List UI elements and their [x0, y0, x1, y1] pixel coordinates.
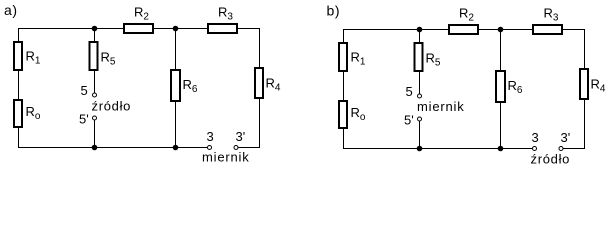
wire: circuit b bottom horizontal (right of node 3') [563, 148, 585, 149]
wire: circuit b R6 branch bottom [500, 103, 501, 148]
wire: circuit b left vertical [343, 29, 344, 149]
resistor R3 (a) [208, 24, 237, 33]
svg-text:miernik: miernik [417, 99, 465, 114]
wire: circuit b R5 branch top [419, 29, 420, 42]
node 5' terminal circle (b) [418, 117, 422, 121]
resistor R3 (b) [533, 25, 562, 34]
svg-text:5: 5 [81, 83, 88, 98]
svg-text:b): b) [327, 3, 341, 19]
node 3 terminal circle (a) [208, 146, 212, 150]
node 3' terminal circle (a) [234, 146, 238, 150]
node 3' terminal circle (b) [559, 147, 563, 151]
wire: circuit b R5 branch to node 5 [419, 72, 420, 94]
junction dot a: bottom R5 branch [92, 145, 98, 151]
node 5 terminal circle (a) [93, 93, 97, 97]
junction dot b: bottom R5 branch [417, 146, 423, 152]
resistor R2 (a) [124, 24, 153, 33]
wire: circuit b R6 branch top [500, 29, 501, 70]
wire: circuit a bottom horizontal (left of node 3) [18, 147, 207, 148]
svg-text:5': 5' [79, 112, 89, 127]
resistor R1 (a) [14, 42, 22, 70]
junction dot b: top R5 branch [417, 27, 423, 33]
junction dot a: top R5 branch [92, 26, 98, 32]
wire: circuit b node 5' to bottom [419, 121, 420, 148]
wire: circuit a R6 branch top [175, 28, 176, 69]
svg-text:3': 3' [236, 129, 246, 144]
resistor R4 (a) [255, 68, 263, 98]
svg-text:3: 3 [207, 129, 214, 144]
wire: circuit a right vertical above R4 [259, 28, 260, 67]
node 3 terminal circle (b) [533, 147, 537, 151]
wire: circuit a R5 branch to node 5 [94, 71, 95, 93]
node 5 terminal circle (b) [418, 94, 422, 98]
svg-text:3: 3 [532, 130, 539, 145]
junction dot b: top R6 branch [498, 27, 504, 33]
wire: circuit a right vertical below R4 [259, 99, 260, 148]
resistor R6 (b) [496, 71, 505, 102]
wire: circuit a node 5' to bottom [94, 120, 95, 147]
resistor Ro (b) [339, 101, 347, 128]
wire: circuit b right vertical below R4 [584, 100, 585, 149]
svg-text:5: 5 [406, 84, 413, 99]
resistor R6 (a) [171, 70, 180, 101]
wire: circuit a R5 branch top [94, 28, 95, 41]
resistor R1 (b) [339, 43, 347, 71]
svg-text:źródło: źródło [531, 152, 571, 167]
svg-text:5': 5' [404, 113, 414, 128]
svg-text:a): a) [4, 2, 18, 18]
node 5' terminal circle (a) [93, 116, 97, 120]
resistor R4 (b) [580, 69, 588, 99]
wire: circuit a top horizontal [18, 28, 260, 29]
svg-text:źródło: źródło [92, 99, 132, 114]
resistor Ro (a) [14, 100, 22, 127]
junction dot a: top R6 branch [173, 26, 179, 32]
junction dot a: bottom R6 branch [173, 145, 179, 151]
junction dot b: bottom R6 branch [498, 146, 504, 152]
wire: circuit b right vertical above R4 [584, 29, 585, 68]
svg-text:miernik: miernik [202, 150, 250, 165]
wire: circuit b bottom horizontal (left of node 3) [343, 148, 532, 149]
wire: circuit a bottom horizontal (right of node 3') [238, 147, 260, 148]
svg-text:3': 3' [561, 130, 571, 145]
wire: circuit a R6 branch bottom [175, 102, 176, 147]
resistor R5 (b) [415, 43, 423, 71]
wire: circuit a left vertical [18, 28, 19, 148]
wire: circuit b top horizontal [343, 29, 585, 30]
resistor R5 (a) [90, 42, 98, 70]
resistor R2 (b) [449, 25, 478, 34]
